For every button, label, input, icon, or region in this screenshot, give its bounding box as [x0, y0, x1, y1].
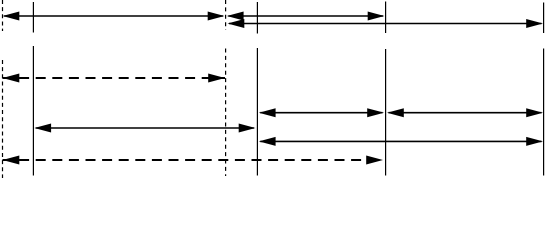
- timeline L2 (solid event line, x=33.4): [32, 2, 34, 176]
- interval arrow A (solid double-headed, L1 to L3, y=16): [3, 12, 225, 21]
- interval arrow E (solid double-headed, L5 to L6, y=112.7): [387, 108, 543, 117]
- interval arrow F (solid double-headed, L2 to L4, y=128): [34, 124, 255, 133]
- timeline L6 (solid event line, x=543.6): [543, 3, 545, 176]
- timeline L5 (solid event line, x=385.6): [385, 2, 387, 176]
- interval arrow H (dashed double-headed, L1 to L5, y=160): [3, 156, 384, 165]
- timeline L4 (solid event line, x=257.4): [256, 2, 258, 176]
- interval arrow B (solid double-headed, L3 to L5, y=16): [227, 12, 385, 21]
- interval arrow G (solid double-headed, L4 to L6, y=141.4): [259, 137, 543, 146]
- interval arrow C (solid double-headed, L3 to L6, y=23.5): [228, 19, 544, 28]
- timeline L3 (dashed event line, x=225.6): [225, 0, 227, 176]
- interval arrow D2 (dashed double-headed, L1 to L3, y=78): [3, 74, 226, 83]
- timeline L1 (dashed event line, x=2.5): [2, 0, 4, 178]
- interval arrow D (solid double-headed, L4 to L5, y=112.7): [259, 108, 384, 117]
